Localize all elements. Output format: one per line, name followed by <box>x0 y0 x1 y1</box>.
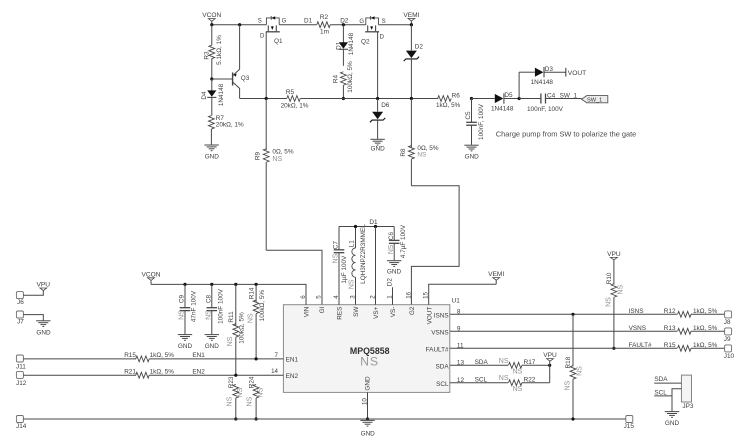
label NS (R23 left) <box>226 396 233 406</box>
svg-text:R13: R13 <box>664 325 676 332</box>
label R17 <box>524 359 536 366</box>
label C7 <box>333 241 340 250</box>
label C8 <box>205 294 212 303</box>
svg-text:0Ω, 5%: 0Ω, 5% <box>272 149 293 156</box>
pin 13 SDA (right) <box>435 360 464 371</box>
svg-text:GI: GI <box>319 306 326 313</box>
value 1k 5% (R15) <box>693 342 718 349</box>
label R21 <box>124 369 136 376</box>
wire R21 to EN2 pin <box>149 374 283 376</box>
label R8 <box>400 148 407 157</box>
wire ISNS row <box>450 313 726 315</box>
wire rail to VS+ pin <box>375 227 377 305</box>
wire J7 to GND <box>23 315 43 321</box>
wire SDA to JP3 <box>654 382 681 384</box>
capacitor C4 <box>519 94 581 104</box>
net label FAULT# <box>629 342 652 349</box>
svg-text:D: D <box>260 34 265 40</box>
svg-text:1kΩ, 5%: 1kΩ, 5% <box>436 102 461 109</box>
svg-text:NS: NS <box>618 285 625 295</box>
net label D1 (gate wire) <box>304 18 313 25</box>
wire Q2 drain down <box>377 32 379 99</box>
svg-text:J8: J8 <box>724 319 731 326</box>
svg-text:1kΩ, 5%: 1kΩ, 5% <box>150 352 175 359</box>
connector J12 <box>16 371 27 387</box>
power flag VPU (SDA) <box>543 352 557 365</box>
ground at J7 <box>36 321 51 337</box>
svg-text:J12: J12 <box>16 380 27 387</box>
svg-text:ISNS: ISNS <box>629 308 644 315</box>
resistor R22 <box>508 380 522 386</box>
label U1 <box>452 298 461 305</box>
junction GND pin/rail <box>366 417 369 420</box>
ground under C5 <box>464 145 479 160</box>
svg-text:NS: NS <box>564 380 571 390</box>
net label SW_1 (wire) <box>560 93 578 100</box>
label NS (R23 right) <box>237 387 244 397</box>
svg-text:VCON: VCON <box>141 271 160 278</box>
wire J12 to R21 <box>23 374 136 376</box>
svg-text:VOUT: VOUT <box>426 307 433 325</box>
value 1k 5% (R12) <box>693 308 718 315</box>
label Q2 <box>361 39 370 46</box>
resistor R13 <box>678 328 692 334</box>
label NS (R17 below) <box>513 369 523 376</box>
capacitor C6 <box>389 227 400 261</box>
label NS (R14) <box>248 313 255 323</box>
label C9 <box>179 294 186 303</box>
svg-text:JP3: JP3 <box>682 403 693 410</box>
resistor R8 <box>409 99 415 186</box>
svg-text:D3: D3 <box>545 66 554 73</box>
svg-text:J15: J15 <box>624 423 635 430</box>
label C6 <box>388 231 395 240</box>
net label SDA (row) <box>475 359 489 366</box>
value 1k 5% (R15) <box>150 352 175 359</box>
wire J6 to VPU <box>23 291 43 296</box>
label R9 <box>254 151 261 160</box>
label R12 <box>664 308 676 315</box>
wire JP3 to ground <box>671 396 673 411</box>
connector J9 <box>724 328 732 343</box>
value LQH3NPZ2R3MMEL (L1) <box>360 224 367 284</box>
svg-text:NS: NS <box>205 310 212 320</box>
svg-text:GND: GND <box>387 269 402 276</box>
label R24 <box>248 376 255 388</box>
svg-text:C9: C9 <box>179 294 186 303</box>
svg-text:J11: J11 <box>16 364 26 371</box>
label NS (R24 left) <box>247 396 254 406</box>
svg-text:Charge pump from SW to polariz: Charge pump from SW to polarize the gate <box>496 129 637 138</box>
net label SCL (JP3) <box>654 389 667 396</box>
value 1N4148 (D5) <box>491 105 514 112</box>
svg-text:NS: NS <box>272 156 282 163</box>
svg-text:S: S <box>258 19 262 25</box>
svg-text:NS: NS <box>179 310 186 320</box>
svg-text:VSNS: VSNS <box>431 330 448 337</box>
label D1 (diode) <box>336 41 343 50</box>
label R2 <box>320 14 329 21</box>
wire up to D3 branch <box>519 72 535 98</box>
svg-text:NS: NS <box>227 336 234 346</box>
label R15 <box>664 342 676 349</box>
svg-text:100kΩ, 5%: 100kΩ, 5% <box>259 290 266 322</box>
label NS (R18 left) <box>564 380 571 390</box>
svg-text:20kΩ, 1%: 20kΩ, 1% <box>216 122 244 129</box>
svg-text:14: 14 <box>271 368 278 375</box>
pin 14 EN2 <box>271 368 298 380</box>
IC U1 MPQ5858 body <box>283 305 449 393</box>
ground under D6 <box>370 139 385 152</box>
label NS (R22 left) <box>499 375 509 382</box>
connector J11 <box>16 355 26 371</box>
ground under C8 <box>205 335 220 350</box>
label NS (C7) <box>333 253 340 263</box>
label R15 <box>124 352 136 359</box>
svg-text:R2: R2 <box>320 14 329 21</box>
pin 8 ISNS (right) <box>434 309 461 320</box>
label NS (R10 right) <box>618 285 625 295</box>
svg-text:NS: NS <box>388 244 395 254</box>
svg-text:NS: NS <box>237 387 244 397</box>
wire R17 to VPU <box>522 364 550 366</box>
pin label S (Q2) <box>382 19 386 25</box>
pin label G (Q2) <box>359 19 364 25</box>
wire VEMI to VOUT pin <box>429 284 497 305</box>
resistor R12 <box>678 311 692 317</box>
pin 7 EN1 <box>275 352 299 364</box>
value 100k 5% (R4) <box>347 61 354 93</box>
pin 11 FAULT# (right) <box>426 343 464 354</box>
label D6 <box>381 102 390 109</box>
value 20k 1% (R7) <box>216 122 244 129</box>
svg-text:D: D <box>380 35 385 41</box>
label NS (R18 right) <box>576 366 583 376</box>
svg-text:R6: R6 <box>452 92 461 99</box>
svg-text:R21: R21 <box>124 369 136 376</box>
power flag VPU (R10) <box>607 251 621 260</box>
svg-text:J7: J7 <box>17 319 24 326</box>
svg-text:1m: 1m <box>320 28 329 35</box>
svg-text:R23: R23 <box>228 376 235 388</box>
svg-text:1N4148: 1N4148 <box>531 79 554 86</box>
svg-text:FAULT#: FAULT# <box>426 347 449 354</box>
svg-text:D5: D5 <box>504 92 513 99</box>
svg-text:5: 5 <box>316 295 323 299</box>
svg-text:GND: GND <box>205 154 220 161</box>
svg-text:100nF, 100V: 100nF, 100V <box>527 106 564 113</box>
ground under IC <box>360 420 375 437</box>
value 4.7uF 100V (C6) <box>400 224 407 258</box>
svg-text:1µF 100V: 1µF 100V <box>341 255 348 284</box>
resistor R9 <box>263 99 269 251</box>
label NS (R24 right) <box>257 387 264 397</box>
svg-text:EN2: EN2 <box>286 373 299 380</box>
svg-text:VPU: VPU <box>543 352 557 359</box>
value 20k 1% (R5) <box>281 103 309 110</box>
label R14 <box>248 287 255 299</box>
svg-text:ISNS: ISNS <box>434 313 449 320</box>
value 100nF 100V (C5) <box>478 103 485 140</box>
svg-text:G: G <box>359 19 364 25</box>
svg-text:R9: R9 <box>254 151 261 160</box>
wire VSNS row <box>450 330 726 332</box>
svg-text:1kΩ, 5%: 1kΩ, 5% <box>693 342 718 349</box>
label Q3 <box>241 75 250 82</box>
svg-text:G: G <box>282 19 287 25</box>
wire R8 to G2 pin <box>411 186 459 305</box>
net label D2 (top wire) <box>340 18 349 25</box>
svg-text:47nF 100V: 47nF 100V <box>191 290 198 322</box>
svg-text:D1: D1 <box>369 219 378 226</box>
svg-text:SDA: SDA <box>475 359 489 366</box>
junction SDA/VPU <box>548 364 551 367</box>
svg-text:VSNS: VSNS <box>629 325 646 332</box>
label R4 <box>333 74 340 83</box>
wire R9 to GI pin <box>266 250 322 305</box>
svg-text:1kΩ, 5%: 1kΩ, 5% <box>693 325 718 332</box>
junction EN2/R11 <box>234 374 237 377</box>
svg-text:G2: G2 <box>409 306 416 315</box>
value 1N4148 (D3) <box>531 79 554 86</box>
pin label G (Q1) <box>282 19 287 25</box>
svg-text:R15: R15 <box>124 352 136 359</box>
junction C9 top <box>183 283 186 286</box>
wire R22 to VPU column <box>522 365 550 382</box>
pin 12 SCL (right) <box>436 377 464 388</box>
junction at Q3 emitter on top rail <box>238 23 241 26</box>
svg-text:GND: GND <box>36 329 51 336</box>
svg-text:NS: NS <box>360 355 379 369</box>
svg-text:SW_1: SW_1 <box>560 93 578 100</box>
svg-text:GND: GND <box>178 343 193 350</box>
svg-text:FAULT#: FAULT# <box>629 342 652 349</box>
label NS (L1) <box>348 279 355 289</box>
pin label S (Q1) <box>258 19 262 25</box>
resistor R11 <box>233 284 239 375</box>
wire J11 to R15 <box>23 358 136 360</box>
label NS (R9) <box>272 156 282 163</box>
svg-text:GND: GND <box>205 343 220 350</box>
transistor Q3 <box>233 25 240 99</box>
net label SCL (row) <box>475 376 488 383</box>
value 100k 5% (R14) <box>259 290 266 322</box>
wire SCL to JP3 <box>654 395 672 397</box>
svg-text:100kΩ, 5%: 100kΩ, 5% <box>239 312 246 344</box>
svg-text:R10: R10 <box>606 272 613 284</box>
junction VS+ rail <box>374 225 377 228</box>
label R13 <box>664 325 676 332</box>
svg-text:RES: RES <box>337 307 344 320</box>
diode D1 1N4148 <box>339 25 348 66</box>
svg-text:D2: D2 <box>387 278 394 287</box>
pin 9 VSNS (right) <box>431 326 461 337</box>
capacitor C7 <box>334 227 345 305</box>
svg-text:C6: C6 <box>388 231 395 240</box>
svg-text:NS: NS <box>513 369 523 376</box>
pin 10 GND (bottom) <box>361 376 371 419</box>
svg-text:D6: D6 <box>381 102 390 109</box>
ground under R7 <box>204 145 219 161</box>
junction R4 bottom <box>342 97 345 100</box>
svg-text:SCL: SCL <box>436 381 449 388</box>
resistor R23 <box>233 384 239 419</box>
junction charge pump node <box>518 97 521 100</box>
svg-text:NS: NS <box>605 297 612 307</box>
svg-text:J10: J10 <box>724 353 735 360</box>
svg-text:NS: NS <box>247 396 254 406</box>
connector J6 <box>16 292 24 307</box>
junction Q2 drain/row <box>376 97 379 100</box>
pin label D (Q2) <box>380 35 385 41</box>
label R3 <box>204 51 211 60</box>
value 0ohm 5% (R9) <box>272 149 293 156</box>
svg-text:SDA: SDA <box>654 376 668 383</box>
power flag VEMI (near IC) <box>488 271 504 284</box>
resistor R6 <box>438 96 452 102</box>
pin 16 G2 (top) <box>405 291 416 315</box>
capacitor C8 <box>207 284 218 334</box>
svg-text:S: S <box>382 19 386 25</box>
junction Q1 drain/row <box>265 97 268 100</box>
svg-text:GND: GND <box>665 420 680 427</box>
text NS (IC) <box>360 355 379 369</box>
resistor R21 <box>136 372 150 378</box>
label R11 <box>228 311 235 323</box>
capacitor C5 <box>466 99 477 145</box>
pin 3 SW (top) <box>350 295 361 317</box>
label R7 <box>216 115 225 122</box>
pin 4 RES (top) <box>333 295 344 320</box>
label D2 (zener) <box>415 43 424 50</box>
svg-text:GND: GND <box>370 146 385 153</box>
svg-text:R8: R8 <box>400 148 407 157</box>
net tag SW_1 <box>582 96 608 104</box>
resistor R2 <box>317 22 331 28</box>
junction C8 top <box>210 283 213 286</box>
junction at D1 anode <box>342 23 345 26</box>
svg-text:NS: NS <box>333 253 340 263</box>
svg-text:SW_1: SW_1 <box>587 97 602 103</box>
label R6 <box>452 92 461 99</box>
svg-text:C4: C4 <box>547 93 556 100</box>
ground at JP3 <box>665 412 680 427</box>
svg-text:Q1: Q1 <box>274 38 283 45</box>
svg-text:1kΩ, 5%: 1kΩ, 5% <box>150 369 175 376</box>
junction R3/D4/Q3 base <box>210 77 213 80</box>
svg-text:VEMI: VEMI <box>403 12 419 19</box>
svg-text:D1: D1 <box>336 41 343 50</box>
svg-text:EN1: EN1 <box>286 357 299 364</box>
power flag VCON (bottom) <box>141 271 160 284</box>
label NS (C8) <box>205 310 212 320</box>
svg-text:J9: J9 <box>724 336 731 343</box>
value 1k 5% (R21) <box>150 369 175 376</box>
svg-text:D1: D1 <box>304 18 313 25</box>
svg-text:R18: R18 <box>565 356 572 368</box>
text MPQ5858 <box>350 346 390 356</box>
label NS (R17 left) <box>499 358 509 365</box>
label NS (R8) <box>417 152 426 159</box>
svg-text:R5: R5 <box>286 89 295 96</box>
wire bottom rail <box>23 418 625 420</box>
label NS (R10 left) <box>605 297 612 307</box>
svg-text:VEMI: VEMI <box>488 271 504 278</box>
junction R11 top <box>234 283 237 286</box>
resistor R17 <box>508 362 522 368</box>
svg-text:1N4148: 1N4148 <box>218 83 225 106</box>
value 1uF 100V (C7) <box>341 255 348 284</box>
svg-text:VIN: VIN <box>304 306 311 317</box>
svg-text:R14: R14 <box>248 287 255 299</box>
svg-text:U1: U1 <box>452 298 461 305</box>
label D5 <box>504 92 513 99</box>
svg-text:NS: NS <box>499 375 509 382</box>
wire JP3 middle pin <box>672 389 681 396</box>
wire VCON rail to VIN <box>151 284 306 304</box>
svg-text:VS+: VS+ <box>373 306 380 319</box>
label NS (R11) <box>227 336 234 346</box>
svg-text:VPU: VPU <box>37 282 51 289</box>
svg-text:R4: R4 <box>333 74 340 83</box>
junction VEMI column/row <box>410 97 413 100</box>
zener diode D6 <box>370 99 385 139</box>
label R22 <box>524 376 536 383</box>
svg-text:VPU: VPU <box>607 251 621 258</box>
connector JP3 <box>681 375 693 410</box>
svg-text:C5: C5 <box>465 111 472 120</box>
value 1k 5% (R13) <box>693 325 718 332</box>
svg-text:4.7µF 100V: 4.7µF 100V <box>400 224 407 258</box>
wire Q1 gate to R2 <box>279 24 316 26</box>
pin 2 VS+ (top) <box>370 295 381 319</box>
wire Q2 source to VEMI <box>379 24 412 26</box>
svg-text:16: 16 <box>405 291 412 298</box>
label C5 <box>465 111 472 120</box>
power flag VEMI (top) <box>403 12 419 25</box>
junction R18/rail <box>571 417 574 420</box>
label L1 <box>348 240 355 248</box>
svg-text:100nF 100V: 100nF 100V <box>217 288 224 324</box>
svg-text:R15: R15 <box>664 342 676 349</box>
net label D1 (rail) <box>369 219 378 226</box>
svg-text:NS: NS <box>513 386 523 393</box>
label R18 <box>565 356 572 368</box>
label D3 <box>545 66 554 73</box>
label R10 <box>606 272 613 284</box>
wire rail D1 above IC <box>339 226 394 228</box>
junction R23/rail <box>234 417 237 420</box>
diode D5 1N4148 <box>495 93 519 103</box>
wire SCL row <box>450 382 508 384</box>
ground under C9 <box>178 335 193 350</box>
svg-text:NS: NS <box>226 396 233 406</box>
svg-text:1kΩ, 5%: 1kΩ, 5% <box>693 308 718 315</box>
connector J14 <box>16 416 27 431</box>
resistor R15 <box>136 356 150 362</box>
resistor R18 <box>570 314 576 419</box>
junction C5 top <box>470 97 473 100</box>
resistor R5 <box>287 96 301 102</box>
junction VEMI/D2 <box>410 23 413 26</box>
mosfet Q2 <box>365 16 379 32</box>
resistor R15 <box>678 345 692 351</box>
ground under C6 <box>387 261 402 276</box>
value 5.1k 1% <box>216 35 223 65</box>
svg-text:D4: D4 <box>201 91 208 100</box>
svg-text:C7: C7 <box>333 241 340 250</box>
pin 6 VIN (top) <box>300 295 311 317</box>
